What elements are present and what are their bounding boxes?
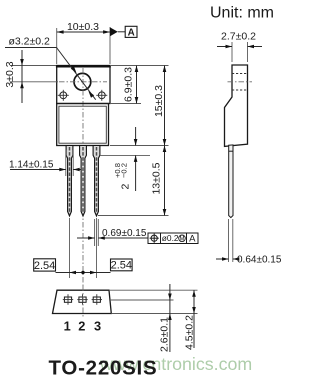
- svg-text:TO-220SIS: TO-220SIS: [49, 357, 158, 380]
- hidden hole lines: [232, 73, 248, 75]
- svg-text:3±0.3: 3±0.3: [4, 61, 16, 87]
- side lead: [229, 145, 233, 218]
- svg-text:A: A: [128, 27, 135, 38]
- dimension 0.69±0.15: [77, 219, 148, 246]
- svg-text:ø3.2±0.2: ø3.2±0.2: [9, 36, 51, 48]
- dimension 2.7±0.2: [217, 31, 262, 63]
- dimension 15±0.3: [110, 66, 169, 146]
- dimple left: [58, 90, 69, 101]
- side view outline: [225, 65, 248, 146]
- centerline vertical: [82, 68, 84, 288]
- dimension 13±0.5: [98, 146, 169, 216]
- svg-text:2: 2: [78, 319, 85, 334]
- dimension 6.9±0.3: [110, 66, 169, 104]
- feature control frame ⊕ ø0.2 M A: [148, 233, 198, 245]
- svg-text:0.69±0.15: 0.69±0.15: [102, 228, 147, 239]
- svg-text:−0.2: −0.2: [120, 163, 129, 178]
- dimension 2.6±0.1: [109, 284, 198, 352]
- lead centre extension lines: [69, 218, 71, 278]
- svg-text:13±0.5: 13±0.5: [151, 162, 163, 194]
- svg-text:ø0.2: ø0.2: [162, 233, 179, 243]
- datum A symbol: [110, 26, 137, 38]
- svg-text:6.9±0.3: 6.9±0.3: [123, 67, 135, 102]
- bottom view centreline: [82, 286, 84, 318]
- svg-text:1.14±0.15: 1.14±0.15: [9, 160, 54, 171]
- svg-text:2.6±0.1: 2.6±0.1: [159, 317, 171, 352]
- svg-text:2.54: 2.54: [111, 260, 132, 272]
- pin 2 section: [77, 294, 87, 305]
- package body (front view): [57, 104, 109, 146]
- hole centerline horizontal: [59, 81, 107, 83]
- dimension ø3.2±0.2 leader: [5, 36, 96, 100]
- dimension 2 +0.8/-0.2: [100, 127, 150, 191]
- dimension 2.54 / 2.54: [34, 259, 132, 275]
- svg-text:4.5±0.2: 4.5±0.2: [184, 315, 196, 350]
- bottom view outline: [53, 290, 112, 313]
- svg-text:2.7±0.2: 2.7±0.2: [221, 31, 256, 43]
- svg-text:2: 2: [120, 184, 132, 190]
- svg-text:10±0.3: 10±0.3: [67, 21, 99, 33]
- mounting hole: [74, 73, 91, 90]
- svg-text:3: 3: [94, 319, 101, 334]
- dimension 3±0.3: [4, 50, 58, 103]
- svg-text:Unit: mm: Unit: mm: [210, 5, 274, 22]
- svg-text:15±0.3: 15±0.3: [153, 85, 165, 117]
- pin 1 section: [63, 294, 73, 305]
- lead 2 (front): [80, 146, 87, 217]
- package tab (front view flange): [56, 66, 111, 104]
- svg-text:1: 1: [64, 319, 71, 334]
- dimension 1.14±0.15: [9, 150, 81, 176]
- dimension 0.64±0.15: [216, 219, 282, 266]
- pin 3 section: [92, 294, 102, 305]
- svg-text:2.54: 2.54: [34, 260, 55, 272]
- svg-text:M: M: [180, 237, 185, 243]
- svg-text:0.64±0.15: 0.64±0.15: [237, 255, 282, 266]
- lead 3 (front): [93, 146, 100, 217]
- dimension 4.5±0.2: [184, 290, 196, 350]
- dimple right: [96, 90, 107, 101]
- lead 1 (front): [66, 146, 73, 217]
- svg-text:A: A: [189, 234, 196, 245]
